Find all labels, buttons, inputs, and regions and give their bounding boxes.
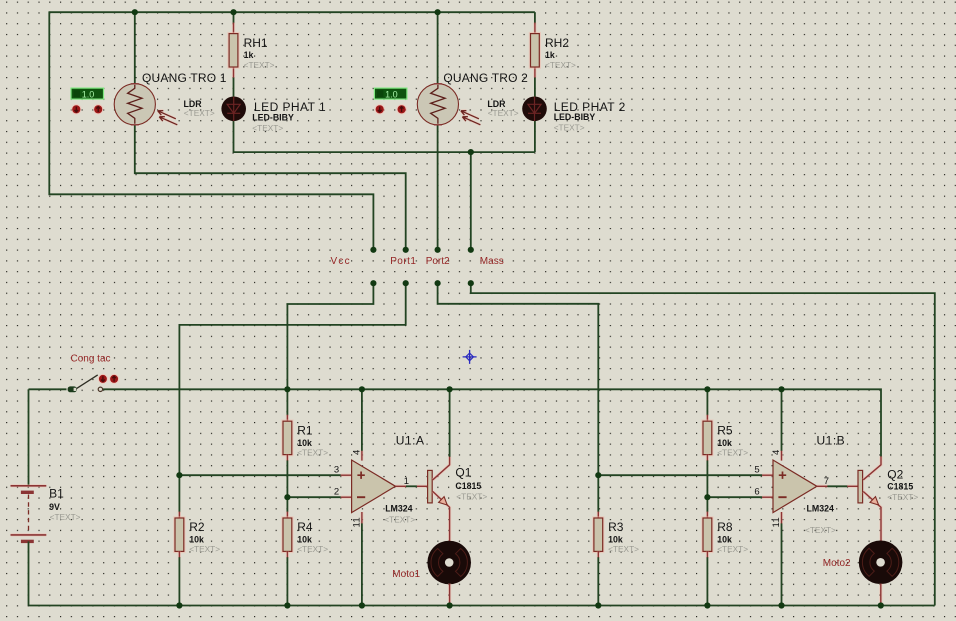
wire RH2 to LED2 bbox=[534, 77, 536, 97]
value LED-BIBY of LED PHAT 1 bbox=[252, 112, 294, 122]
pin number 1 of U1:A bbox=[404, 476, 410, 487]
pin number 4 of U1:A bbox=[352, 449, 363, 455]
svg-text:<TEXT>: <TEXT> bbox=[887, 492, 918, 502]
junction top rail at LDR1 bbox=[132, 9, 138, 15]
wire Mass lower to ground bbox=[471, 283, 935, 605]
down button of QUANG TRO 2 bbox=[375, 104, 385, 114]
wire RH1 to LED1 bbox=[233, 77, 235, 97]
wire left Vcc drop bbox=[49, 11, 373, 249]
label R4 bbox=[297, 520, 313, 534]
wire R2 to ground bbox=[178, 557, 180, 605]
wire LDR2 to Port2 bbox=[437, 124, 439, 249]
value C1815 of Q1 bbox=[455, 481, 481, 491]
wire R1 from rail bbox=[286, 389, 288, 415]
label LED PHAT 2 bbox=[554, 100, 626, 114]
svg-text:<TEXT>: <TEXT> bbox=[297, 447, 328, 457]
junction rail U1B pin4 bbox=[778, 386, 784, 392]
svg-text:C1815: C1815 bbox=[887, 482, 913, 492]
base pin of Q1 bbox=[417, 485, 428, 488]
value LED-BIBY of LED PHAT 2 bbox=[554, 112, 596, 122]
net label Moto1 bbox=[392, 569, 420, 580]
LED LED PHAT 1 body bbox=[221, 97, 246, 122]
property text of QUANG TRO 1 bbox=[184, 108, 215, 118]
emitter of Q2 bbox=[863, 492, 881, 541]
photoresistor LDR QUANG TRO 1 body bbox=[114, 84, 155, 125]
collector of Q2 bbox=[863, 456, 881, 479]
pin 6 stub of U1:B bbox=[762, 496, 773, 499]
label Q1 bbox=[455, 466, 471, 480]
junction ground R3 bbox=[595, 602, 601, 608]
pin bottom of R5 bbox=[706, 455, 709, 461]
wire Port1 lower to amp A bbox=[179, 283, 405, 475]
pin 1 output stub of U1:A bbox=[396, 485, 407, 488]
pin 5 stub of U1:B bbox=[762, 474, 773, 477]
svg-text:QUANG TRO 2: QUANG TRO 2 bbox=[443, 71, 528, 85]
op-amp U1:B triangle bbox=[773, 460, 817, 513]
light arrows of QUANG TRO 1 bbox=[158, 111, 178, 125]
minus input marker of U1:A bbox=[357, 496, 365, 498]
net label Port1 bbox=[390, 256, 416, 267]
svg-text:<TEXT>: <TEXT> bbox=[184, 108, 215, 118]
resistor R5 body bbox=[703, 421, 712, 454]
value 1k of RH1 bbox=[244, 50, 254, 60]
terminal Port2 lower bbox=[435, 280, 441, 286]
junction ground R2 bbox=[176, 602, 182, 608]
wire R4 to ground bbox=[286, 557, 288, 605]
wire LED1 to mass row bbox=[234, 121, 535, 153]
battery cell link dashed bbox=[28, 495, 30, 531]
svg-text:<TEXT>: <TEXT> bbox=[252, 123, 283, 133]
svg-text:<TEXT>: <TEXT> bbox=[297, 544, 328, 554]
pin top of R4 bbox=[286, 512, 289, 518]
terminal Port1 lower bbox=[403, 280, 409, 286]
pin top of R1 bbox=[286, 415, 289, 421]
pin number 11 of U1:A bbox=[352, 517, 363, 527]
pin bottom of R3 bbox=[597, 551, 600, 557]
svg-text:R2: R2 bbox=[189, 520, 205, 534]
pin number 5 of U1:B bbox=[754, 464, 760, 475]
svg-text:10k: 10k bbox=[297, 535, 312, 545]
transistor Q2 body bbox=[858, 470, 863, 503]
svg-text:R8: R8 bbox=[717, 520, 733, 534]
junction top rail at RH1 bbox=[230, 9, 236, 15]
svg-text:<TEXT>: <TEXT> bbox=[545, 60, 576, 70]
pin bottom of Moto2 bbox=[879, 584, 882, 606]
svg-text:4: 4 bbox=[352, 449, 363, 455]
svg-text:1k: 1k bbox=[244, 50, 254, 60]
property text of Q1 bbox=[456, 492, 487, 502]
label RH1 bbox=[244, 36, 268, 50]
plus input marker of U1:A bbox=[357, 472, 364, 479]
motor Moto1 body bbox=[427, 541, 471, 585]
pin top of R8 bbox=[706, 512, 709, 518]
value C1815 of Q2 bbox=[887, 482, 913, 492]
svg-text:R5: R5 bbox=[717, 423, 733, 437]
value 10k of R1 bbox=[297, 438, 312, 448]
value LDR of QUANG TRO 2 bbox=[487, 99, 506, 109]
switch Cong tac pole bbox=[68, 386, 77, 392]
property text of QUANG TRO 2 bbox=[488, 108, 519, 118]
wire U1:B pin11 to ground bbox=[781, 523, 783, 605]
label R2 bbox=[189, 520, 205, 534]
pin bottom of R2 bbox=[178, 551, 181, 557]
pin 4 stub of U1:A bbox=[360, 451, 363, 461]
wire battery negative bbox=[28, 541, 30, 605]
svg-text:11: 11 bbox=[771, 517, 782, 527]
wire R3 down bbox=[597, 475, 599, 512]
property text of R1 bbox=[297, 447, 328, 457]
emitter of Q1 bbox=[433, 492, 450, 541]
wire R5 from rail bbox=[706, 389, 708, 415]
up button of QUANG TRO 1 bbox=[93, 104, 103, 114]
svg-text:<TEXT>: <TEXT> bbox=[244, 60, 275, 70]
pin 2 stub of U1:A bbox=[341, 496, 352, 499]
svg-text:Cong tac: Cong tac bbox=[71, 354, 111, 365]
svg-text:<TEXT>: <TEXT> bbox=[554, 123, 585, 133]
pin top of Moto1 bbox=[448, 541, 451, 545]
svg-text:<TEXT>: <TEXT> bbox=[189, 544, 220, 554]
svg-text:<TEXT>: <TEXT> bbox=[717, 447, 748, 457]
property text of R3 bbox=[608, 544, 639, 554]
svg-text:Q1: Q1 bbox=[455, 466, 471, 480]
pin top of R5 bbox=[706, 415, 709, 421]
svg-text:1k: 1k bbox=[545, 50, 555, 60]
value LDR of QUANG TRO 1 bbox=[184, 99, 203, 109]
wire U1:A pin4 from rail bbox=[361, 389, 363, 451]
switch up button bbox=[109, 374, 119, 384]
pin 11 stub of U1:A bbox=[360, 512, 363, 524]
up button of QUANG TRO 2 bbox=[396, 104, 406, 114]
label LED PHAT 1 bbox=[254, 100, 326, 114]
svg-text:Moto2: Moto2 bbox=[823, 558, 851, 569]
pin top of RH1 bbox=[232, 23, 235, 34]
pin 7 output stub of U1:B bbox=[817, 485, 828, 488]
svg-text:10k: 10k bbox=[189, 535, 204, 545]
pin top of R2 bbox=[178, 512, 181, 518]
property text of RH2 bbox=[545, 60, 576, 70]
plus input marker of U1:B bbox=[779, 472, 786, 479]
op-amp U1:A triangle bbox=[352, 460, 396, 513]
value 10k of R8 bbox=[717, 535, 732, 545]
net label Moto2 bbox=[823, 558, 851, 569]
svg-text:<TEXT>: <TEXT> bbox=[50, 512, 81, 522]
svg-text:<TEXT>: <TEXT> bbox=[805, 525, 836, 535]
wire plus node B bbox=[598, 474, 762, 476]
svg-text:3: 3 bbox=[334, 464, 340, 475]
junction plus node A bbox=[176, 472, 182, 478]
wire switch to rail bbox=[103, 389, 881, 457]
svg-text:10k: 10k bbox=[608, 535, 623, 545]
terminal Mass lower bbox=[468, 280, 474, 286]
minus input marker of U1:B bbox=[778, 496, 786, 498]
resistor R1 body bbox=[283, 421, 292, 454]
property text of R5 bbox=[717, 447, 748, 457]
junction rail R1 bbox=[284, 386, 290, 392]
svg-text:RH2: RH2 bbox=[545, 36, 569, 50]
svg-text:B1: B1 bbox=[49, 487, 64, 501]
junction ground R8 bbox=[704, 602, 710, 608]
net label Port2 bbox=[426, 256, 450, 267]
property text of U1:A bbox=[384, 514, 415, 524]
pin number 6 of U1:B bbox=[754, 486, 760, 497]
resistor R4 body bbox=[283, 518, 292, 551]
LED LED PHAT 2 body bbox=[522, 97, 547, 122]
label B1 bbox=[49, 487, 64, 501]
battery plate short top bbox=[21, 491, 34, 494]
origin marker bbox=[463, 350, 477, 364]
svg-text:Q2: Q2 bbox=[887, 467, 903, 481]
pin 4 stub of U1:B bbox=[780, 451, 783, 461]
svg-text:<TEXT>: <TEXT> bbox=[384, 514, 415, 524]
value LM324 of U1:B bbox=[807, 504, 834, 514]
resistor R3 body bbox=[594, 518, 603, 551]
resistor R2 body bbox=[175, 518, 184, 551]
wire top Vcc rail bbox=[49, 11, 535, 13]
junction rail U1A pin4 bbox=[359, 386, 365, 392]
wire Vcc lower to rail bbox=[287, 283, 373, 389]
svg-text:R3: R3 bbox=[608, 520, 624, 534]
junction ground Moto2 bbox=[878, 602, 884, 608]
wire Q1 collector to rail bbox=[449, 389, 451, 457]
label Q2 bbox=[887, 467, 903, 481]
switch down button bbox=[98, 374, 108, 384]
wire ground rail bbox=[29, 605, 935, 607]
property text of RH1 bbox=[244, 60, 275, 70]
svg-text:<TEXT>: <TEXT> bbox=[717, 544, 748, 554]
property text of LED PHAT 2 bbox=[554, 123, 585, 133]
svg-text:Moto1: Moto1 bbox=[392, 569, 420, 580]
svg-text:R1: R1 bbox=[297, 423, 313, 437]
light arrows of QUANG TRO 2 bbox=[461, 111, 481, 125]
battery plate short bottom bbox=[21, 540, 34, 543]
switch open contact bbox=[98, 387, 102, 391]
label R8 bbox=[717, 520, 733, 534]
value 10k of R4 bbox=[297, 535, 312, 545]
wire R2 down bbox=[178, 475, 180, 512]
value 10k of R3 bbox=[608, 535, 623, 545]
svg-text:LED-BIBY: LED-BIBY bbox=[554, 112, 596, 122]
svg-text:LED-BIBY: LED-BIBY bbox=[252, 112, 294, 122]
svg-text:RH1: RH1 bbox=[244, 36, 268, 50]
net label Vcc bbox=[331, 256, 351, 267]
value LM324 of U1:A bbox=[385, 503, 412, 513]
property text of B1 bbox=[50, 512, 81, 522]
wire RH2 top feed bbox=[534, 12, 536, 23]
svg-text:4: 4 bbox=[771, 449, 782, 455]
pin number 7 of U1:B bbox=[824, 476, 830, 487]
property text of R4 bbox=[297, 544, 328, 554]
svg-text:<TEXT>: <TEXT> bbox=[608, 544, 639, 554]
brightness display of QUANG TRO 1 bbox=[71, 88, 104, 99]
wire LDR1 top feed bbox=[134, 12, 136, 84]
value 9V of B1 bbox=[49, 502, 60, 512]
wire plus node A bbox=[179, 474, 341, 476]
value 10k of R5 bbox=[717, 438, 732, 448]
svg-text:R4: R4 bbox=[297, 520, 313, 534]
base pin of Q2 bbox=[847, 485, 858, 488]
wire LDR2 top feed bbox=[437, 12, 439, 84]
label QUANG TRO 1 bbox=[142, 71, 227, 85]
svg-text:QUANG TRO 1: QUANG TRO 1 bbox=[142, 71, 227, 85]
svg-text:LM324: LM324 bbox=[385, 503, 412, 513]
svg-text:2: 2 bbox=[334, 486, 340, 497]
property text of R8 bbox=[717, 544, 748, 554]
pin bottom of R1 bbox=[286, 455, 289, 461]
pin bottom of Moto1 bbox=[448, 584, 451, 606]
wire mass drop to terminal bbox=[470, 152, 472, 250]
pin bottom of R8 bbox=[706, 551, 709, 557]
collector of Q1 bbox=[433, 456, 450, 479]
junction rail Q1 collector bbox=[447, 386, 453, 392]
terminal Vcc upper bbox=[370, 247, 376, 253]
value 1k of RH2 bbox=[545, 50, 555, 60]
wire U1:A output to Q1 bbox=[406, 485, 417, 487]
pin top of Moto2 bbox=[879, 541, 882, 545]
wire Port2 lower to amp B bbox=[438, 283, 599, 475]
label QUANG TRO 2 bbox=[443, 71, 528, 85]
svg-text:Port1: Port1 bbox=[390, 256, 416, 267]
property text of LED PHAT 1 bbox=[252, 123, 283, 133]
wire battery positive bbox=[28, 389, 30, 485]
down button of QUANG TRO 1 bbox=[71, 104, 81, 114]
net label Mass bbox=[480, 256, 504, 267]
pin bottom of R4 bbox=[286, 551, 289, 557]
resistor RH1 body bbox=[229, 34, 238, 67]
svg-text:Mass: Mass bbox=[480, 256, 504, 267]
junction minus node B bbox=[704, 494, 710, 500]
wire battery to switch bbox=[29, 388, 67, 390]
property text of R2 bbox=[189, 544, 220, 554]
wire R5 to minus node bbox=[706, 460, 708, 497]
junction plus node B bbox=[595, 472, 601, 478]
wire U1:B pin4 from rail bbox=[781, 389, 783, 451]
wire minus node to amp B bbox=[707, 496, 762, 498]
battery plate long top bbox=[11, 484, 47, 487]
wire R8 to ground bbox=[706, 557, 708, 605]
property text of Q2 bbox=[887, 492, 918, 502]
svg-text:5: 5 bbox=[754, 464, 760, 475]
junction ground U1B pin11 bbox=[778, 602, 784, 608]
svg-text:1.0: 1.0 bbox=[385, 89, 398, 99]
photoresistor LDR QUANG TRO 2 body bbox=[417, 84, 458, 125]
pin top of RH2 bbox=[533, 23, 536, 34]
svg-text:11: 11 bbox=[352, 517, 363, 527]
svg-text:LM324: LM324 bbox=[807, 504, 834, 514]
wire minus node to amp A bbox=[287, 496, 341, 498]
pin number 2 of U1:A bbox=[334, 486, 340, 497]
svg-text:<TEXT>: <TEXT> bbox=[456, 492, 487, 502]
wire U1:A pin11 to ground bbox=[361, 523, 363, 605]
transistor Q1 body bbox=[428, 470, 433, 503]
svg-text:Vcc: Vcc bbox=[331, 256, 351, 267]
svg-text:1.0: 1.0 bbox=[82, 89, 95, 99]
svg-text:10k: 10k bbox=[717, 535, 732, 545]
svg-text:10k: 10k bbox=[297, 438, 312, 448]
label R1 bbox=[297, 423, 313, 437]
label RH2 bbox=[545, 36, 569, 50]
motor Moto2 body bbox=[859, 541, 903, 585]
label R3 bbox=[608, 520, 624, 534]
label R5 bbox=[717, 423, 733, 437]
terminal Port1 upper bbox=[403, 247, 409, 253]
wire LED2 to mass row bbox=[534, 121, 536, 153]
svg-text:10k: 10k bbox=[717, 438, 732, 448]
pin 3 stub of U1:A bbox=[341, 474, 352, 477]
junction ground U1A pin11 bbox=[359, 602, 365, 608]
switch lever bbox=[77, 375, 98, 389]
label U1:B bbox=[817, 434, 846, 448]
pin top of R3 bbox=[597, 512, 600, 518]
resistor RH2 body bbox=[531, 34, 540, 67]
value 10k of R2 bbox=[189, 535, 204, 545]
pin number 4 of U1:B bbox=[771, 449, 782, 455]
junction minus node A bbox=[284, 494, 290, 500]
wire U1:B output to Q2 bbox=[827, 485, 847, 487]
pin bottom of RH1 bbox=[232, 67, 235, 78]
wire R1 to minus node bbox=[286, 460, 288, 497]
svg-text:C1815: C1815 bbox=[455, 481, 481, 491]
pin number 11 of U1:B bbox=[771, 517, 782, 527]
svg-text:U1:B: U1:B bbox=[817, 434, 846, 448]
svg-text:6: 6 bbox=[754, 486, 760, 497]
junction ground R4 bbox=[284, 602, 290, 608]
svg-text:<TEXT>: <TEXT> bbox=[488, 108, 519, 118]
junction top rail at LDR2 bbox=[435, 9, 441, 15]
wire RH1 top feed bbox=[233, 12, 235, 23]
pin number 3 of U1:A bbox=[334, 464, 340, 475]
junction ground Moto1 bbox=[447, 602, 453, 608]
wire LDR1 to Port1 bbox=[135, 124, 406, 249]
svg-text:9V: 9V bbox=[49, 502, 60, 512]
wire R8 down bbox=[706, 497, 708, 512]
svg-text:U1:A: U1:A bbox=[396, 434, 425, 448]
junction mass row bbox=[468, 149, 474, 155]
terminal Port2 upper bbox=[435, 247, 441, 253]
battery plate long bottom bbox=[11, 533, 47, 536]
junction rail R5 bbox=[704, 386, 710, 392]
wire R3 to ground bbox=[597, 557, 599, 605]
net label Cong tac bbox=[71, 354, 111, 365]
label U1:A bbox=[396, 434, 425, 448]
terminal Vcc lower bbox=[370, 280, 376, 286]
brightness display of QUANG TRO 2 bbox=[374, 88, 407, 99]
svg-text:Port2: Port2 bbox=[426, 256, 450, 267]
pin 11 stub of U1:B bbox=[780, 512, 783, 524]
terminal Mass upper bbox=[468, 247, 474, 253]
resistor R8 body bbox=[703, 518, 712, 551]
property text of U1:B bbox=[805, 525, 836, 535]
pin bottom of RH2 bbox=[533, 67, 536, 78]
wire R4 down bbox=[286, 497, 288, 512]
